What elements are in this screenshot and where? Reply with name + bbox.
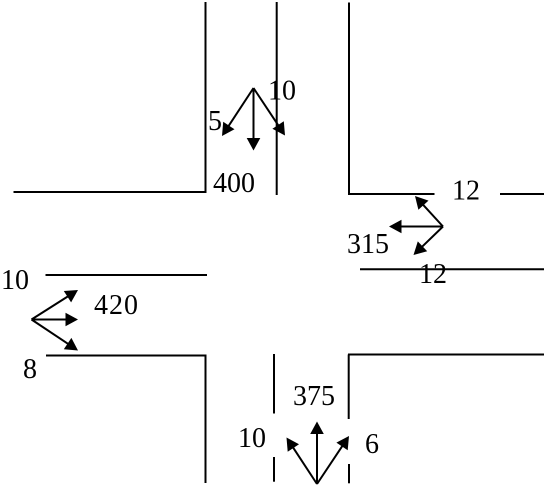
south arm east edge dash 1 bbox=[348, 355, 350, 420]
svg-text:400: 400 bbox=[213, 168, 255, 199]
svg-text:420: 420 bbox=[94, 290, 139, 321]
northeast horizontal segment 1 bbox=[348, 193, 435, 195]
west arm center line bbox=[46, 274, 208, 276]
east approach left-turn arrow bbox=[414, 227, 444, 256]
west approach through arrow bbox=[32, 313, 79, 327]
east arm center line bbox=[360, 268, 544, 270]
svg-text:6: 6 bbox=[365, 429, 379, 460]
north approach left-turn arrow bbox=[222, 88, 254, 136]
svg-text:5: 5 bbox=[208, 106, 222, 137]
north arm east edge bbox=[348, 3, 350, 195]
svg-text:375: 375 bbox=[293, 381, 335, 412]
svg-text:10: 10 bbox=[1, 265, 29, 296]
south approach through arrow bbox=[310, 422, 324, 485]
south arm west edge bbox=[205, 355, 207, 484]
west approach left-turn arrow bbox=[32, 290, 79, 320]
svg-text:12: 12 bbox=[452, 176, 480, 207]
west approach right-turn arrow bbox=[32, 320, 79, 351]
north approach through arrow bbox=[247, 88, 261, 151]
northeast horizontal segment 2 bbox=[500, 193, 544, 195]
southeast corner horizontal bbox=[348, 354, 544, 356]
svg-text:8: 8 bbox=[23, 354, 37, 385]
north approach right-turn arrow bbox=[254, 88, 286, 136]
svg-text:12: 12 bbox=[419, 259, 447, 290]
north arm west edge bbox=[205, 2, 207, 192]
svg-text:10: 10 bbox=[268, 76, 296, 107]
northwest corner horizontal bbox=[14, 191, 207, 193]
south approach left-turn arrow bbox=[287, 438, 318, 485]
east approach right-turn arrow bbox=[415, 196, 443, 227]
east approach through arrow bbox=[389, 220, 443, 234]
north arm center line bbox=[276, 2, 278, 195]
svg-text:315: 315 bbox=[347, 229, 389, 260]
south arm east edge dash 2 bbox=[348, 464, 350, 483]
svg-text:10: 10 bbox=[238, 423, 266, 454]
south arm center dash 1 bbox=[273, 354, 275, 414]
southwest corner horizontal bbox=[46, 355, 207, 357]
south approach right-turn arrow bbox=[317, 436, 349, 484]
south arm center dash 2 bbox=[273, 457, 275, 482]
